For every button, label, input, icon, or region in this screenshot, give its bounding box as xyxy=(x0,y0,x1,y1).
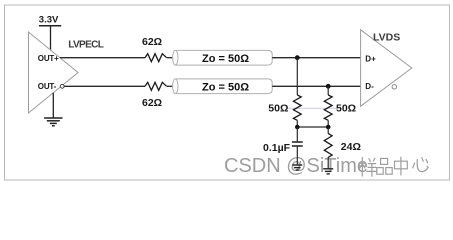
supply rail bar xyxy=(39,25,61,27)
label LVDS xyxy=(373,32,400,44)
svg-text:3.3V: 3.3V xyxy=(39,15,59,26)
wire R2 to T2 xyxy=(167,85,173,87)
wire R5 to ground xyxy=(327,157,329,168)
ground below C1 xyxy=(292,165,302,170)
junction node left common xyxy=(295,125,300,130)
inversion bubble U2 xyxy=(392,85,396,89)
svg-text:62Ω: 62Ω xyxy=(142,97,162,109)
resistor R2 62Ω xyxy=(145,82,167,90)
watermark CSDN @SiTime xyxy=(224,155,368,177)
svg-text:Zo = 50Ω: Zo = 50Ω xyxy=(202,53,249,65)
capacitor C1 0.1µF xyxy=(292,142,303,146)
pin label OUT+ xyxy=(38,54,59,63)
svg-text:D+: D+ xyxy=(365,54,376,63)
wire junction to R3 xyxy=(296,58,298,95)
wire T2 to D- xyxy=(272,85,360,87)
svg-text:CSDN @SiTime: CSDN @SiTime xyxy=(224,155,368,177)
svg-text:62Ω: 62Ω xyxy=(142,36,162,48)
resistor R3 50Ω xyxy=(293,95,301,127)
value label 24Ω xyxy=(341,141,361,153)
pin label D- xyxy=(365,82,374,91)
resistor R1 62Ω xyxy=(145,54,167,62)
wire junction to R4 xyxy=(327,86,329,95)
inversion bubble OUT- xyxy=(60,84,64,88)
wire R1 to T1 xyxy=(167,57,173,59)
wire common node R3-R4 xyxy=(297,126,328,128)
supply label 3.3V xyxy=(39,15,59,26)
wire C1 to ground xyxy=(296,147,298,165)
wire common to C1 xyxy=(296,127,298,141)
wire OUT+ to R1 xyxy=(60,57,145,59)
junction node D+ line xyxy=(295,55,300,60)
pin label OUT- xyxy=(38,82,57,91)
value label 0.1µF xyxy=(263,142,291,154)
wire common to R5 xyxy=(327,127,329,134)
watermark CJK 品 xyxy=(377,158,392,174)
faint watermark underline xyxy=(288,107,339,109)
svg-text:0.1µF: 0.1µF xyxy=(263,142,291,154)
junction node right common xyxy=(326,125,331,130)
junction node D- line xyxy=(326,84,331,89)
value label 50Ω (right) xyxy=(336,103,356,115)
svg-text:24Ω: 24Ω xyxy=(341,141,361,153)
driver U1 LVPECL triangle xyxy=(29,32,79,113)
transmission line T1 xyxy=(173,50,273,65)
ground below U1 xyxy=(44,93,62,126)
watermark CJK 心 xyxy=(413,158,428,172)
wire OUT- to R2 xyxy=(64,85,145,87)
wire 3.3V to U1 xyxy=(50,26,52,50)
svg-text:50Ω: 50Ω xyxy=(336,103,356,115)
svg-text:OUT-: OUT- xyxy=(38,82,57,91)
resistor R5 24Ω xyxy=(324,133,332,157)
value label 62Ω (top) xyxy=(142,36,162,48)
wire T1 to D+ xyxy=(272,57,360,59)
value label 50Ω (left) xyxy=(268,103,288,115)
svg-text:Zo = 50Ω: Zo = 50Ω xyxy=(202,82,249,94)
watermark CJK 样 xyxy=(359,158,377,177)
svg-text:50Ω: 50Ω xyxy=(268,103,288,115)
pin label D+ xyxy=(365,54,376,63)
svg-text:D-: D- xyxy=(365,82,374,91)
receiver U2 LVDS triangle xyxy=(361,30,412,106)
value label 62Ω (bottom) xyxy=(142,97,162,109)
label LVPECL xyxy=(68,39,104,50)
watermark CJK 中 xyxy=(395,157,408,176)
transmission line T2 xyxy=(173,79,273,94)
svg-text:OUT+: OUT+ xyxy=(38,54,59,63)
svg-text:LVPECL: LVPECL xyxy=(68,39,104,50)
svg-text:LVDS: LVDS xyxy=(373,32,400,44)
resistor R4 50Ω xyxy=(324,95,332,127)
ground below R5 xyxy=(323,169,333,174)
